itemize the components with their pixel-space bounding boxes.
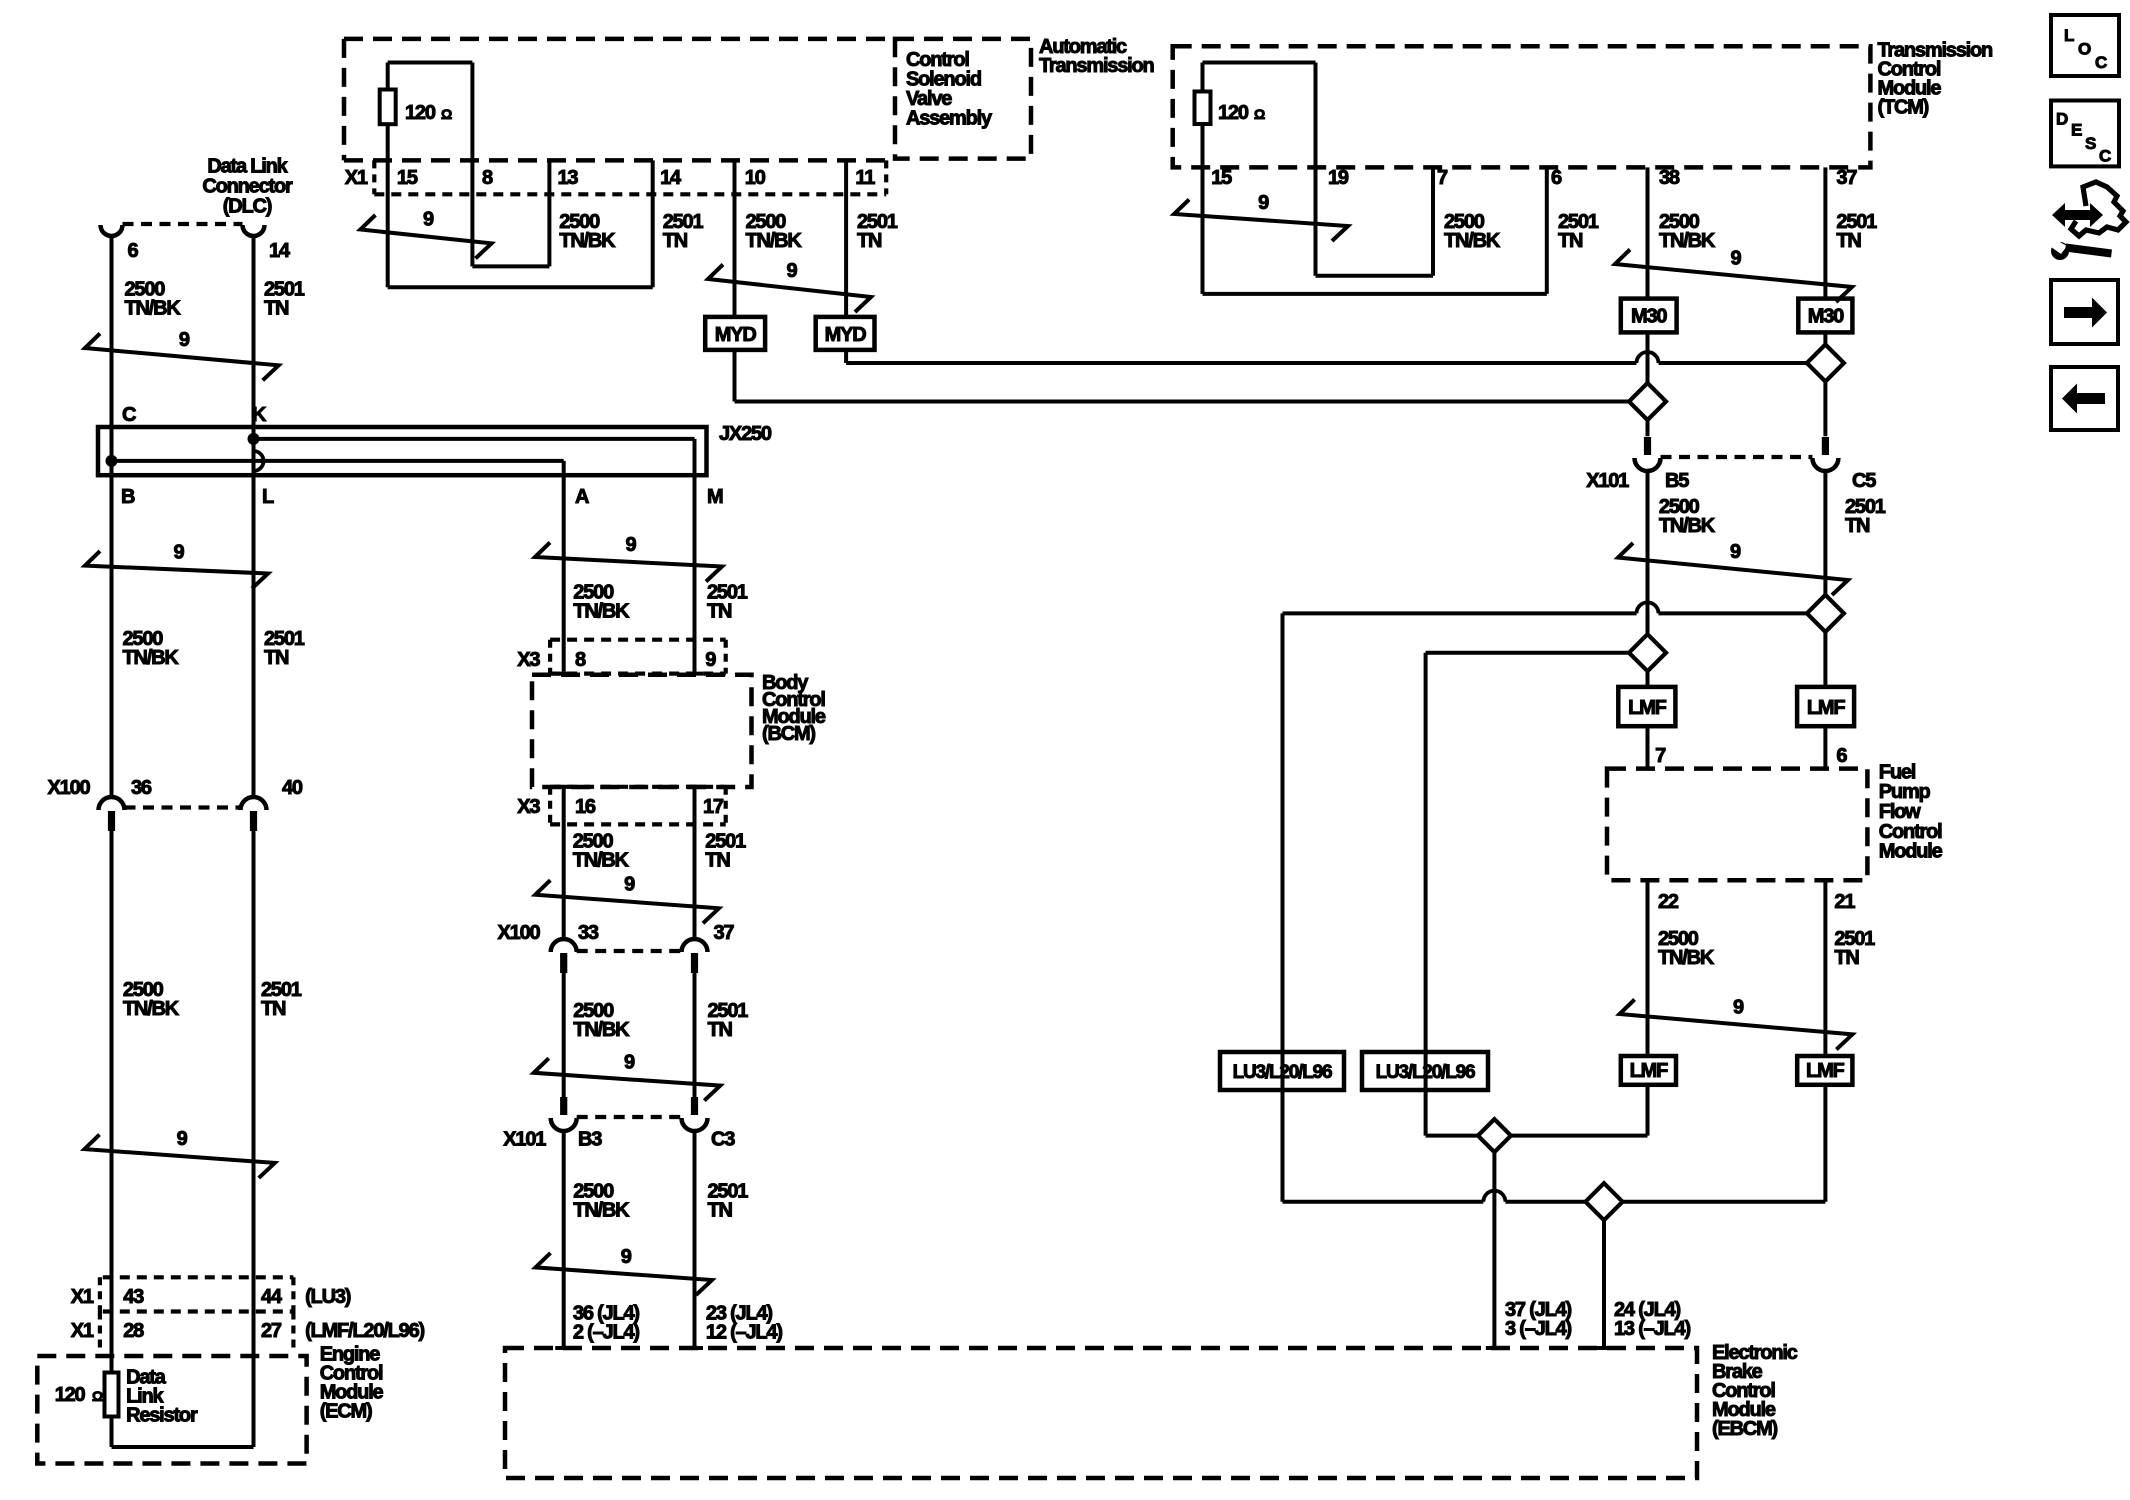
svg-text:9: 9 <box>177 1128 188 1150</box>
svg-text:TN: TN <box>264 647 289 669</box>
svg-text:Data Link: Data Link <box>207 156 288 178</box>
svg-text:37: 37 <box>714 922 735 944</box>
svg-text:19: 19 <box>1328 167 1349 189</box>
svg-text:TN/BK: TN/BK <box>573 850 630 872</box>
svg-text:2 (–JL4): 2 (–JL4) <box>573 1321 640 1343</box>
svg-text:X101: X101 <box>503 1129 546 1151</box>
svg-text:TN/BK: TN/BK <box>573 1200 630 1222</box>
svg-text:K: K <box>252 404 267 426</box>
svg-text:36: 36 <box>131 777 152 799</box>
svg-text:14: 14 <box>660 167 682 189</box>
svg-text:C: C <box>2095 53 2107 72</box>
svg-text:9: 9 <box>787 260 798 282</box>
svg-text:120: 120 <box>55 1384 86 1406</box>
svg-text:X100: X100 <box>498 922 541 944</box>
svg-text:L: L <box>2064 26 2074 45</box>
svg-text:TN/BK: TN/BK <box>1659 230 1716 252</box>
svg-text:TN: TN <box>707 600 732 622</box>
svg-text:(DLC): (DLC) <box>223 196 272 218</box>
svg-text:TN: TN <box>857 230 882 252</box>
svg-text:Ω: Ω <box>1254 106 1265 122</box>
svg-text:(TCM): (TCM) <box>1878 97 1929 119</box>
svg-text:7: 7 <box>1655 745 1666 767</box>
svg-text:JX250: JX250 <box>719 423 772 445</box>
svg-text:Assembly: Assembly <box>906 107 993 129</box>
svg-text:17: 17 <box>703 796 724 818</box>
svg-text:Transmission: Transmission <box>1039 55 1154 77</box>
svg-text:Flow: Flow <box>1879 801 1921 823</box>
svg-text:13: 13 <box>558 167 579 189</box>
svg-text:TN: TN <box>663 230 688 252</box>
svg-text:TN/BK: TN/BK <box>123 998 180 1020</box>
svg-text:9: 9 <box>423 209 434 231</box>
svg-text:MYD: MYD <box>825 324 867 346</box>
svg-text:LU3/L20/L96: LU3/L20/L96 <box>1376 1062 1475 1083</box>
svg-text:Control: Control <box>1879 821 1942 843</box>
svg-text:(BCM): (BCM) <box>762 723 815 745</box>
svg-text:9: 9 <box>624 1051 635 1073</box>
svg-text:TN/BK: TN/BK <box>746 230 803 252</box>
svg-text:120: 120 <box>1218 102 1249 124</box>
svg-text:Ω: Ω <box>92 1388 103 1404</box>
svg-text:X3: X3 <box>517 796 540 818</box>
svg-text:15: 15 <box>397 167 418 189</box>
svg-text:TN/BK: TN/BK <box>573 600 630 622</box>
svg-text:9: 9 <box>621 1246 632 1268</box>
svg-text:LU3/L20/L96: LU3/L20/L96 <box>1233 1062 1332 1083</box>
svg-text:TN/BK: TN/BK <box>123 647 180 669</box>
svg-text:TN: TN <box>705 850 730 872</box>
svg-text:8: 8 <box>482 167 493 189</box>
svg-text:Pump: Pump <box>1879 781 1931 803</box>
svg-text:X3: X3 <box>517 649 540 671</box>
svg-text:6: 6 <box>1836 745 1847 767</box>
svg-text:M30: M30 <box>1808 306 1844 328</box>
svg-text:Module: Module <box>1879 841 1943 863</box>
svg-text:15: 15 <box>1211 167 1232 189</box>
svg-text:10: 10 <box>745 167 766 189</box>
svg-text:O: O <box>2078 40 2091 59</box>
svg-text:TN: TN <box>1836 230 1861 252</box>
svg-text:LMF: LMF <box>1628 697 1666 719</box>
svg-text:9: 9 <box>1258 192 1269 214</box>
svg-text:TN: TN <box>1845 515 1870 537</box>
svg-text:X1: X1 <box>71 1320 94 1342</box>
svg-text:M: M <box>707 486 723 508</box>
svg-text:MYD: MYD <box>715 324 757 346</box>
svg-text:TN: TN <box>264 297 289 319</box>
svg-text:28: 28 <box>123 1320 144 1342</box>
svg-text:27: 27 <box>261 1320 282 1342</box>
svg-text:A: A <box>575 486 589 508</box>
svg-text:C: C <box>122 404 136 426</box>
svg-text:TN/BK: TN/BK <box>573 1019 630 1041</box>
svg-text:120: 120 <box>405 102 436 124</box>
svg-text:22: 22 <box>1658 891 1679 913</box>
svg-text:9: 9 <box>705 649 716 671</box>
svg-text:40: 40 <box>282 777 303 799</box>
svg-text:X1: X1 <box>345 167 368 189</box>
svg-text:13 (–JL4): 13 (–JL4) <box>1614 1318 1690 1340</box>
svg-text:TN: TN <box>708 1200 733 1222</box>
svg-text:LMF: LMF <box>1806 1060 1844 1082</box>
svg-text:9: 9 <box>624 874 635 896</box>
svg-text:LMF: LMF <box>1807 697 1845 719</box>
svg-text:TN/BK: TN/BK <box>1658 947 1715 969</box>
svg-text:TN: TN <box>1834 947 1859 969</box>
svg-text:LMF: LMF <box>1630 1060 1668 1082</box>
svg-text:9: 9 <box>626 534 637 556</box>
svg-text:Resistor: Resistor <box>126 1405 198 1427</box>
svg-text:B3: B3 <box>578 1129 602 1151</box>
svg-text:9: 9 <box>1733 996 1744 1018</box>
svg-text:TN/BK: TN/BK <box>559 230 616 252</box>
svg-text:TN/BK: TN/BK <box>1444 230 1501 252</box>
svg-text:6: 6 <box>1551 167 1562 189</box>
svg-text:33: 33 <box>578 922 599 944</box>
svg-text:37: 37 <box>1836 167 1857 189</box>
svg-text:Connector: Connector <box>202 176 293 198</box>
svg-text:TN: TN <box>1558 230 1583 252</box>
svg-text:C5: C5 <box>1852 470 1876 492</box>
svg-text:Ω: Ω <box>441 106 452 122</box>
svg-text:9: 9 <box>179 329 190 351</box>
svg-text:8: 8 <box>575 649 586 671</box>
svg-text:D: D <box>2056 110 2068 129</box>
svg-text:(EBCM): (EBCM) <box>1712 1418 1778 1440</box>
svg-text:38: 38 <box>1659 167 1680 189</box>
svg-text:44: 44 <box>261 1286 283 1308</box>
svg-text:3 (–JL4): 3 (–JL4) <box>1505 1318 1572 1340</box>
svg-text:21: 21 <box>1834 891 1855 913</box>
svg-text:L: L <box>262 486 274 508</box>
svg-text:12 (–JL4): 12 (–JL4) <box>706 1321 782 1343</box>
svg-text:X1: X1 <box>71 1286 94 1308</box>
svg-text:7: 7 <box>1437 167 1448 189</box>
svg-text:X100: X100 <box>48 777 91 799</box>
svg-text:6: 6 <box>128 240 139 262</box>
svg-text:(LU3): (LU3) <box>305 1286 351 1308</box>
svg-text:11: 11 <box>855 167 875 189</box>
svg-text:TN/BK: TN/BK <box>1659 515 1716 537</box>
svg-text:Fuel: Fuel <box>1879 761 1916 783</box>
svg-text:S: S <box>2085 134 2096 153</box>
svg-text:TN: TN <box>708 1019 733 1041</box>
svg-text:TN/BK: TN/BK <box>125 297 182 319</box>
svg-text:E: E <box>2071 121 2082 140</box>
svg-text:C3: C3 <box>711 1129 735 1151</box>
svg-text:B: B <box>121 486 135 508</box>
svg-text:9: 9 <box>1731 248 1742 270</box>
svg-text:43: 43 <box>123 1286 144 1308</box>
svg-text:B5: B5 <box>1665 470 1689 492</box>
svg-text:(ECM): (ECM) <box>320 1400 372 1422</box>
svg-text:TN: TN <box>261 998 286 1020</box>
svg-text:M30: M30 <box>1631 306 1667 328</box>
svg-text:(LMF/L20/L96): (LMF/L20/L96) <box>305 1320 424 1342</box>
svg-text:16: 16 <box>575 796 596 818</box>
svg-text:C: C <box>2099 147 2111 166</box>
svg-text:X101: X101 <box>1586 470 1629 492</box>
svg-text:9: 9 <box>174 542 185 564</box>
svg-text:9: 9 <box>1730 541 1741 563</box>
svg-text:14: 14 <box>269 240 291 262</box>
